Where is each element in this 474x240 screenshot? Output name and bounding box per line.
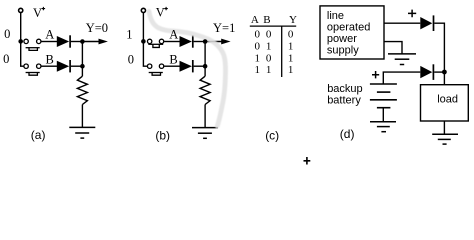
ground battery — [370, 121, 396, 123]
svg-text:Y=0: Y=0 — [86, 21, 108, 35]
wire output bus to resistor (b) — [204, 42, 206, 77]
diode DB cathode bar (a) — [69, 60, 71, 72]
svg-text:1: 1 — [288, 64, 294, 76]
table header rule — [250, 25, 296, 27]
resistor R (a) — [77, 76, 87, 104]
ground load — [432, 133, 458, 135]
svg-text:1: 1 — [288, 40, 294, 52]
arrowhead output Y (a) — [99, 39, 108, 45]
output wire Y (b) — [205, 41, 222, 43]
wire switch A to diode A (a) — [41, 41, 57, 43]
svg-text:battery: battery — [327, 95, 361, 107]
svg-text:0: 0 — [254, 40, 260, 52]
diode D3 cathode bar — [433, 15, 435, 31]
node dot output A (a) — [80, 39, 85, 44]
switch B blade open (b) — [149, 72, 163, 74]
svg-text:1: 1 — [266, 40, 272, 52]
svg-text:B: B — [263, 14, 270, 26]
ground (a) — [69, 126, 95, 128]
plus sign supply output — [408, 10, 416, 18]
svg-text:line: line — [327, 10, 344, 22]
svg-text:A: A — [251, 14, 259, 26]
svg-text:power: power — [327, 33, 357, 45]
svg-text:(d): (d) — [340, 127, 355, 141]
svg-text:1: 1 — [266, 64, 272, 76]
svg-text:A: A — [169, 28, 178, 42]
diode D4 cathode bar — [432, 64, 434, 80]
node dot output B (a) — [80, 64, 85, 69]
diode DA cathode bar (b) — [192, 35, 194, 47]
wire D3 to bus corner — [434, 23, 444, 72]
diode DA cathode bar (a) — [69, 35, 71, 47]
wire diode B to node (a) — [71, 65, 83, 67]
svg-text:0: 0 — [266, 29, 272, 41]
switch B blade open (a) — [26, 72, 40, 74]
switch B contacts (a) open — [24, 64, 28, 68]
svg-text:1: 1 — [288, 52, 294, 64]
terminal V+ (b) — [141, 8, 145, 12]
diode DB triangle (b) — [180, 61, 192, 72]
wire switch B to diode B (a) — [41, 65, 57, 67]
svg-text:Y: Y — [289, 14, 297, 26]
svg-text:load: load — [437, 94, 458, 106]
battery plate short 2 — [377, 107, 391, 109]
wire output bus down to resistor (a) — [81, 42, 83, 77]
battery plate long 2 — [370, 99, 397, 101]
svg-text:supply: supply — [327, 45, 359, 57]
svg-text:1: 1 — [254, 64, 260, 76]
diode DA triangle (b) — [180, 36, 192, 47]
wire resistor to ground (a) — [81, 105, 83, 128]
svg-text:V: V — [156, 6, 165, 20]
svg-text:Y=1: Y=1 — [213, 21, 235, 35]
wire diode B to node (b) — [194, 65, 206, 67]
svg-text:B: B — [46, 52, 54, 66]
wire diode A to output node (a) — [71, 41, 83, 43]
wire switch B to diode B (b) — [164, 65, 180, 67]
block line operated power supply — [320, 6, 384, 59]
svg-text:0: 0 — [266, 52, 272, 64]
svg-text:operated: operated — [327, 22, 370, 34]
wire D4 to bus node — [434, 71, 444, 73]
svg-text:B: B — [169, 52, 177, 66]
stray plus from adjacent figure — [304, 157, 311, 165]
svg-text:V: V — [33, 6, 42, 20]
svg-text:(c): (c) — [265, 129, 279, 143]
output wire Y (a) — [82, 41, 99, 43]
diode DB triangle (a) — [57, 61, 69, 72]
ground (b) — [192, 127, 218, 129]
svg-text:1: 1 — [254, 52, 260, 64]
diode DA triangle (a) — [57, 36, 69, 47]
wire battery to ground — [382, 108, 384, 122]
wire diode A to node (b) — [194, 41, 206, 43]
ground supply — [388, 53, 416, 55]
terminal V+ (a) — [19, 8, 23, 12]
battery top wire — [383, 72, 420, 84]
svg-text:0: 0 — [288, 29, 294, 41]
resistor R (b) — [200, 76, 210, 104]
battery plate short 1 — [377, 91, 391, 93]
diode D3 triangle — [420, 17, 432, 29]
node dot output B (b) — [203, 64, 208, 69]
svg-text:(a): (a) — [31, 128, 46, 142]
wire resistor to ground (b) — [204, 105, 206, 128]
plus sign battery — [372, 71, 379, 78]
switch A contacts (a) open — [24, 39, 28, 43]
arrowhead output Y (b) — [221, 39, 230, 45]
wire supply plus out — [384, 22, 420, 24]
switch A contacts (b) closed — [147, 39, 151, 43]
wire bus to load — [443, 72, 445, 85]
table column rule — [281, 26, 283, 77]
battery plate long 1 — [370, 83, 397, 85]
wire V+ rail (a) — [21, 13, 24, 67]
current path highlight (panel b) — [149, 12, 226, 127]
diode D4 triangle — [420, 66, 432, 78]
wire supply return — [384, 42, 402, 54]
block load — [421, 85, 469, 121]
node dot diode bus — [442, 70, 447, 75]
svg-text:0: 0 — [3, 52, 9, 66]
node dot output A (b) — [203, 39, 208, 44]
svg-text:(b): (b) — [155, 129, 170, 143]
svg-text:0: 0 — [128, 52, 134, 66]
switch A blade closed (b) — [148, 43, 163, 45]
wire switch A to diode A (b) — [164, 41, 180, 43]
svg-text:0: 0 — [4, 27, 10, 41]
wire load to ground — [443, 121, 445, 134]
svg-text:1: 1 — [126, 28, 132, 42]
node dot input A on rail (b) — [141, 39, 146, 44]
switch A blade open (a) — [26, 47, 40, 49]
svg-text:A: A — [45, 28, 54, 42]
diode DB cathode bar (b) — [192, 60, 194, 72]
svg-text:backup: backup — [327, 83, 362, 95]
svg-text:0: 0 — [254, 29, 260, 41]
node dot input A on rail (a) — [18, 39, 23, 44]
wire V+ rail (b) — [143, 13, 147, 67]
switch B contacts (b) open — [147, 64, 151, 68]
